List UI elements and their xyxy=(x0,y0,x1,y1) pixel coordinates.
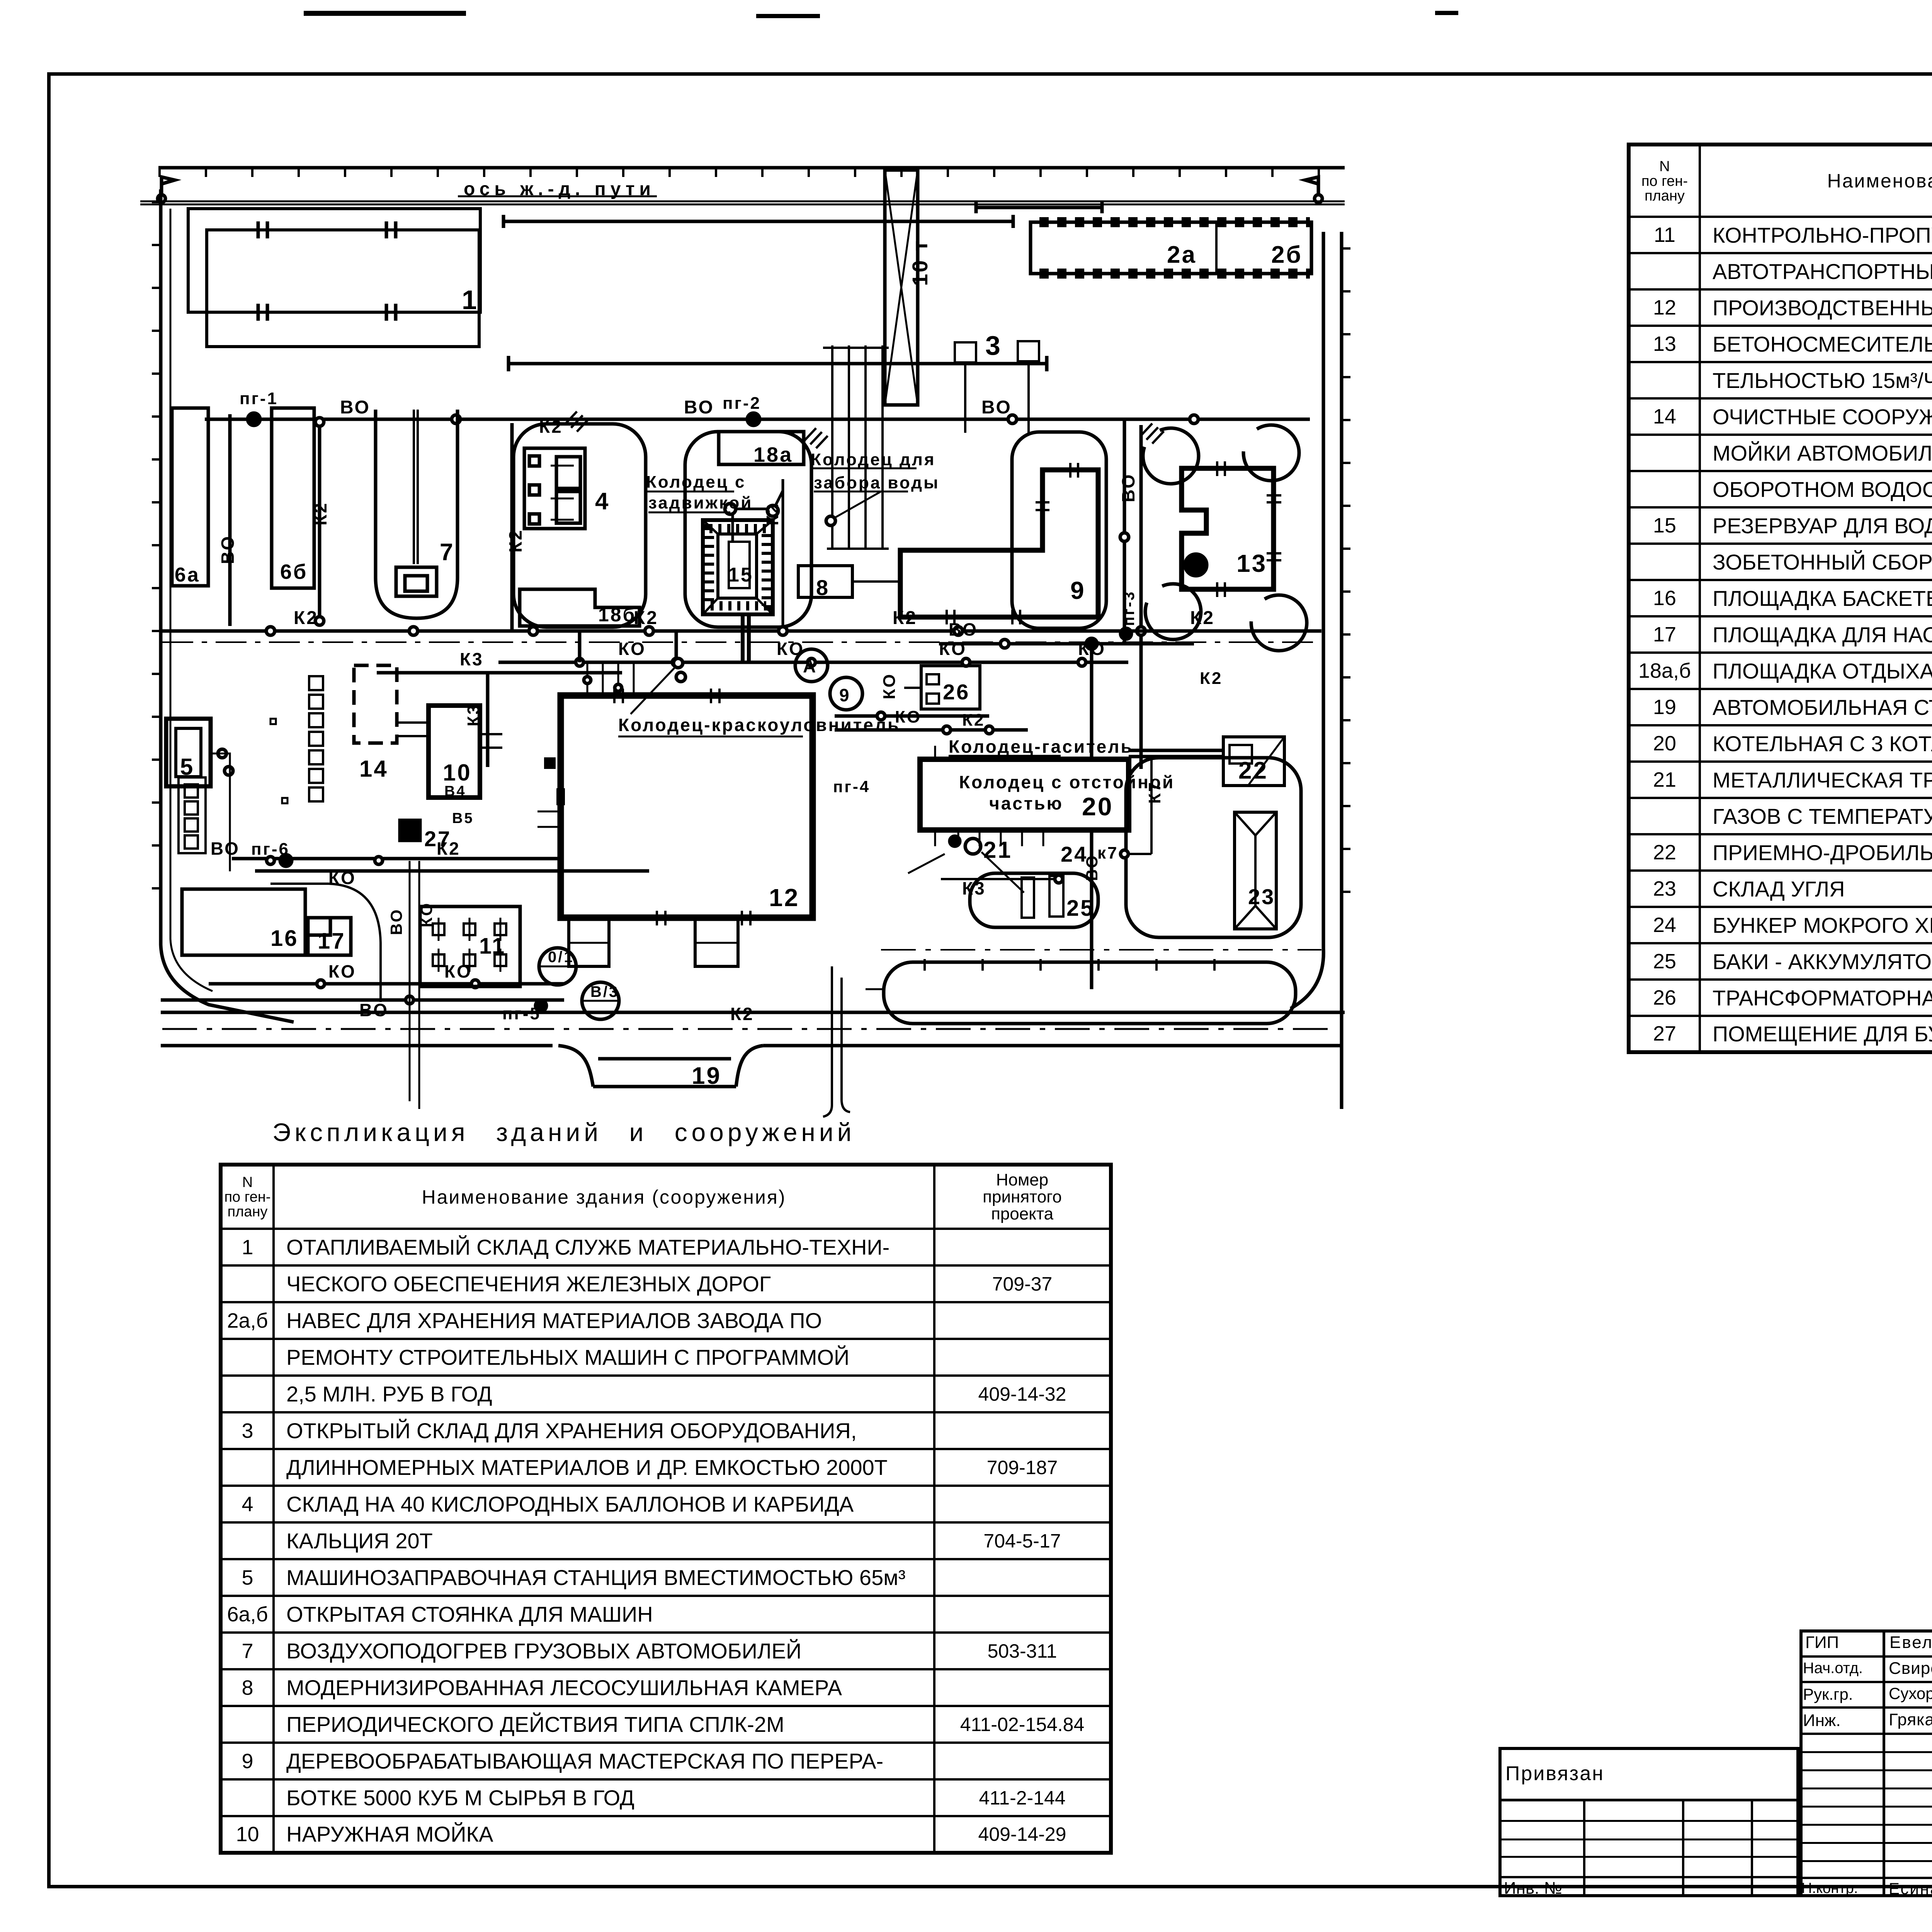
svg-text:ВО: ВО xyxy=(981,397,1012,418)
svg-text:К3: К3 xyxy=(962,878,986,898)
svg-text:23: 23 xyxy=(1248,884,1275,909)
svg-text:к7: к7 xyxy=(1097,844,1119,862)
svg-text:пг-4: пг-4 xyxy=(833,777,870,796)
svg-text:К2: К2 xyxy=(893,608,917,628)
svg-text:пг-1: пг-1 xyxy=(240,389,278,408)
svg-text:13: 13 xyxy=(1236,549,1267,577)
svg-text:А: А xyxy=(803,656,817,676)
svg-text:6а: 6а xyxy=(175,564,200,586)
svg-text:0/1: 0/1 xyxy=(548,949,574,966)
svg-text:Колодец-краскоуловнитель: Колодец-краскоуловнитель xyxy=(618,715,900,735)
svg-text:26: 26 xyxy=(943,680,970,704)
svg-text:КО: КО xyxy=(444,961,472,981)
svg-text:16: 16 xyxy=(270,926,299,951)
svg-text:КО: КО xyxy=(1078,639,1106,659)
svg-text:пг-3: пг-3 xyxy=(1121,590,1138,626)
svg-text:7: 7 xyxy=(440,539,454,566)
svg-text:КО: КО xyxy=(618,639,646,659)
svg-text:К2: К2 xyxy=(634,608,658,628)
svg-text:12: 12 xyxy=(769,884,799,912)
svg-text:Колодец с: Колодец с xyxy=(646,473,746,492)
svg-text:К2: К2 xyxy=(437,838,461,859)
svg-text:ось ж.-д. пути: ось ж.-д. пути xyxy=(464,179,655,199)
svg-text:1: 1 xyxy=(462,285,478,315)
svg-text:К2: К2 xyxy=(310,502,330,526)
svg-text:Колодец-гаситель: Колодец-гаситель xyxy=(949,736,1133,757)
svg-text:ВО: ВО xyxy=(218,535,238,564)
svg-text:22: 22 xyxy=(1238,757,1268,784)
svg-text:10 т: 10 т xyxy=(908,239,932,286)
svg-text:пг-5: пг-5 xyxy=(502,1004,541,1023)
svg-text:19: 19 xyxy=(692,1063,721,1089)
svg-text:КО: КО xyxy=(777,639,804,659)
svg-text:ВО: ВО xyxy=(684,397,714,418)
svg-text:24: 24 xyxy=(1061,842,1088,866)
svg-text:14: 14 xyxy=(359,756,388,782)
svg-text:К2: К2 xyxy=(1200,669,1223,688)
svg-text:КО: КО xyxy=(880,673,899,699)
svg-text:4: 4 xyxy=(595,488,610,515)
svg-text:18б: 18б xyxy=(598,604,636,626)
svg-text:К2: К2 xyxy=(730,1004,754,1024)
svg-text:17: 17 xyxy=(318,929,346,954)
svg-text:пг-2: пг-2 xyxy=(723,394,761,413)
svg-text:К2: К2 xyxy=(505,529,526,553)
svg-text:ВО: ВО xyxy=(1118,473,1138,502)
svg-text:8: 8 xyxy=(816,575,830,600)
svg-text:10: 10 xyxy=(443,760,472,786)
svg-text:В5: В5 xyxy=(452,810,474,827)
svg-text:К3: К3 xyxy=(460,649,484,669)
svg-text:11: 11 xyxy=(479,934,506,959)
svg-text:ВО: ВО xyxy=(359,1000,389,1020)
svg-text:КО: КО xyxy=(328,961,356,981)
svg-text:пг-6: пг-6 xyxy=(251,840,290,859)
svg-text:ВО: ВО xyxy=(387,908,405,935)
svg-text:забора воды: забора воды xyxy=(814,473,940,492)
svg-text:18а: 18а xyxy=(753,443,793,466)
svg-text:3: 3 xyxy=(985,330,1002,361)
svg-text:ВО: ВО xyxy=(340,397,371,418)
svg-text:20: 20 xyxy=(1082,792,1113,821)
svg-text:6б: 6б xyxy=(280,560,308,583)
svg-text:2а: 2а xyxy=(1167,241,1197,268)
svg-text:ВО: ВО xyxy=(949,619,978,639)
svg-text:К2: К2 xyxy=(294,608,318,628)
svg-text:В4: В4 xyxy=(444,783,466,799)
svg-text:К2: К2 xyxy=(763,503,782,526)
svg-text:КО: КО xyxy=(417,902,435,927)
svg-text:9: 9 xyxy=(839,685,851,705)
svg-text:Колодец для: Колодец для xyxy=(811,450,936,469)
svg-text:Колодец с отстойной: Колодец с отстойной xyxy=(959,772,1175,792)
svg-text:К2: К2 xyxy=(539,417,563,437)
svg-text:задвижкой: задвижкой xyxy=(648,493,753,512)
svg-text:ВО: ВО xyxy=(211,838,240,859)
svg-text:К2: К2 xyxy=(962,711,985,730)
svg-text:К2: К2 xyxy=(1190,608,1215,628)
svg-text:21: 21 xyxy=(983,837,1012,863)
svg-text:2б: 2б xyxy=(1271,241,1303,268)
svg-text:В/3: В/3 xyxy=(590,983,619,1000)
svg-text:5: 5 xyxy=(180,754,194,780)
svg-text:КО: КО xyxy=(939,639,967,659)
svg-text:25: 25 xyxy=(1066,896,1095,921)
svg-text:К3: К3 xyxy=(464,704,483,726)
svg-text:15: 15 xyxy=(728,564,753,586)
svg-text:9: 9 xyxy=(1070,577,1086,604)
svg-text:частью: частью xyxy=(989,793,1063,813)
svg-text:КО: КО xyxy=(328,868,356,888)
